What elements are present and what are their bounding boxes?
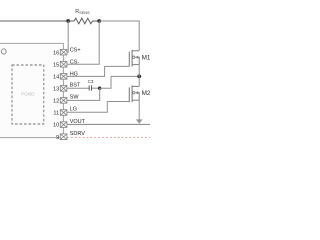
wire phase node down to M2 drain bbox=[138, 76, 140, 86]
svg-text:9: 9 bbox=[56, 135, 59, 141]
svg-text:12: 12 bbox=[53, 99, 59, 105]
pin 13 BST bbox=[53, 83, 81, 93]
svg-text:13: 13 bbox=[53, 87, 59, 93]
svg-text:15: 15 bbox=[53, 62, 59, 68]
wire BST pin 13 to capacitor C3 bbox=[67, 87, 89, 89]
pin 14 HG bbox=[53, 72, 78, 81]
pin 16 CS+ bbox=[53, 47, 81, 56]
svg-text:14: 14 bbox=[53, 75, 59, 81]
wire M2 source down with arrow to output rail bbox=[136, 100, 143, 124]
wire C3 to SW node bbox=[92, 87, 100, 89]
wire RSENS to M1 drain bbox=[99, 21, 139, 51]
svg-text:CS+: CS+ bbox=[70, 47, 81, 53]
svg-text:M2: M2 bbox=[142, 90, 150, 97]
transistor M1 bbox=[129, 50, 139, 67]
svg-text:16: 16 bbox=[53, 50, 59, 56]
transistor M2 bbox=[129, 85, 139, 102]
node junction dot phase node bbox=[137, 75, 141, 79]
node junction dot right of RSENS bbox=[97, 19, 101, 23]
svg-text:SW: SW bbox=[70, 95, 80, 101]
PGND dashed region inside IC bbox=[12, 65, 44, 124]
wire CS- pin 15 up to right RSENS node bbox=[67, 21, 99, 64]
svg-text:RSENS: RSENS bbox=[75, 9, 90, 15]
wire HG pin 14 to M1 gate bbox=[67, 66, 129, 76]
svg-text:HG: HG bbox=[70, 72, 78, 78]
wire CS+ pin 16 up to left RSENS node bbox=[67, 21, 68, 52]
pin 9 SDRV bbox=[56, 131, 85, 141]
wire M1 source down to phase node bbox=[138, 65, 140, 77]
wire phase node to M1 source / M2 drain bbox=[111, 75, 139, 77]
svg-text:PGND: PGND bbox=[21, 92, 35, 97]
node junction dot left of RSENS bbox=[66, 19, 70, 23]
wire LG pin 11 to M2 gate bbox=[67, 102, 129, 113]
wire SW pin 12 to BST/SW node bbox=[67, 88, 100, 100]
svg-text:VOUT: VOUT bbox=[70, 119, 86, 125]
node junction dot BST/SW bbox=[98, 87, 101, 90]
wire VOUT pin 10 output rail bbox=[67, 123, 150, 125]
wire VIN rail to RSENS bbox=[0, 20, 68, 22]
capacitor C3 bbox=[89, 85, 91, 90]
IC U1 body outline bbox=[0, 43, 63, 137]
pin-1 indicator circle bbox=[1, 49, 6, 54]
svg-text:C3: C3 bbox=[88, 79, 94, 84]
svg-text:BST: BST bbox=[70, 83, 81, 89]
pin 11 LG bbox=[53, 107, 77, 117]
svg-text:M1: M1 bbox=[142, 54, 150, 61]
pin 10 VOUT bbox=[53, 119, 86, 129]
svg-text:SDRV: SDRV bbox=[70, 131, 86, 137]
wire SDRV pin 9 red dashed bbox=[67, 137, 150, 139]
svg-text:10: 10 bbox=[53, 123, 59, 129]
pin 15 CS- bbox=[53, 60, 79, 69]
resistor RSENS bbox=[68, 18, 99, 24]
pin 12 SW bbox=[53, 95, 79, 105]
svg-text:CS-: CS- bbox=[70, 60, 80, 66]
svg-text:11: 11 bbox=[53, 111, 59, 117]
svg-text:LG: LG bbox=[70, 107, 77, 113]
wire SW node up to phase node bbox=[100, 76, 111, 88]
